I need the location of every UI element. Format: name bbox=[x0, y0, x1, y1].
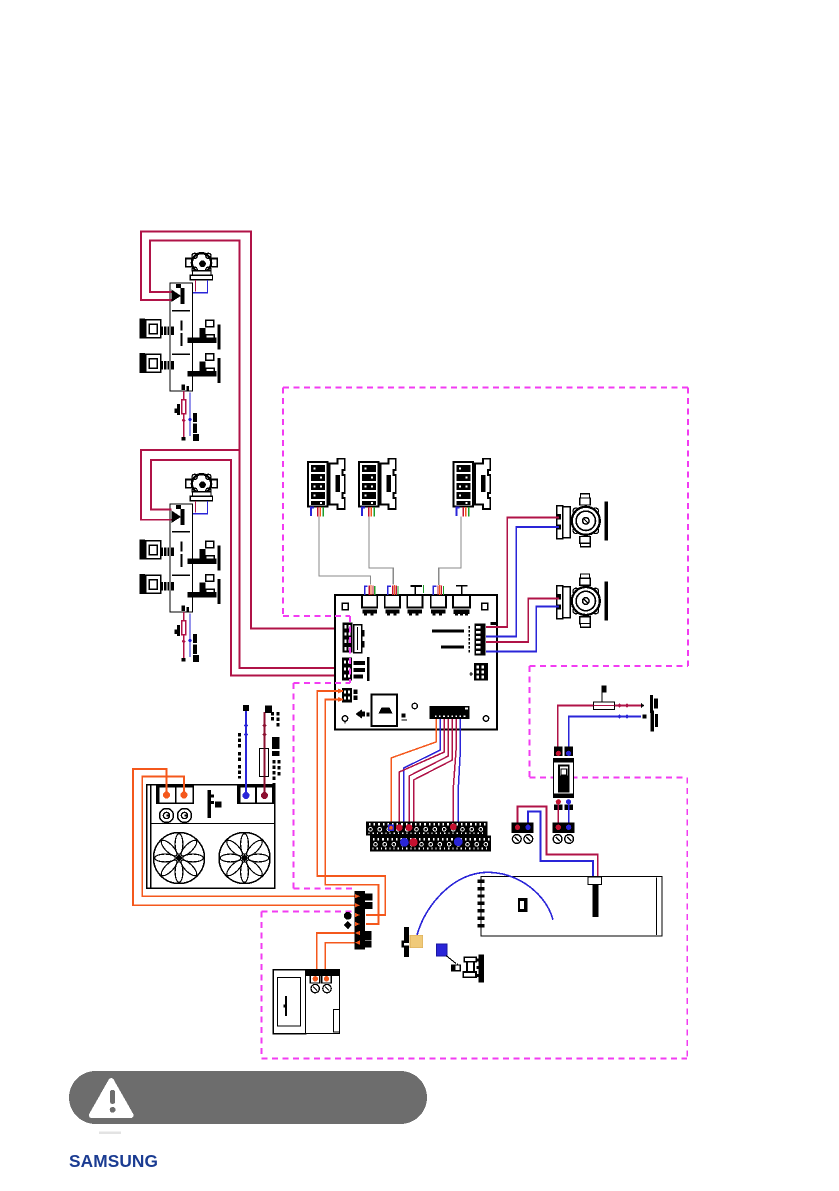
label wiring spec (vertical text marks) bbox=[271, 712, 281, 786]
strip row2 markings bbox=[373, 838, 490, 849]
wire dashed bottom edge 2 bbox=[294, 888, 357, 890]
wire P2 neutral (blue) bbox=[486, 607, 559, 652]
jumper J1 bbox=[402, 714, 406, 718]
wire ODU power loop outer bbox=[133, 769, 357, 905]
terminal strip TS1 row2 bbox=[370, 836, 491, 852]
terminal lug blue row2 a bbox=[400, 838, 409, 847]
connector CN1 bbox=[362, 595, 377, 615]
pin header CN5 bbox=[456, 586, 468, 595]
pump P1 (water pump) bbox=[557, 494, 608, 547]
pcb edge mark bbox=[491, 622, 498, 625]
wire CN11 pin3 (red) bbox=[399, 719, 444, 825]
PCB control board U1 bbox=[335, 595, 497, 730]
wire breaker out neutral bbox=[568, 804, 570, 825]
wire filter to controller A bbox=[317, 933, 358, 974]
supply terminal N bbox=[643, 714, 647, 718]
mounting hole bottom-left bbox=[342, 716, 347, 721]
wire PCB to filter orange B bbox=[325, 700, 378, 925]
terminal block TB1 bbox=[512, 823, 534, 844]
wire dashed top edge bbox=[283, 387, 688, 389]
immersion heater bbox=[588, 877, 602, 885]
indoor hydro box boundary (magenta dashed) bbox=[262, 388, 689, 1059]
wire P1 live (red) bbox=[486, 518, 559, 628]
terminal lug red 2 bbox=[406, 824, 413, 831]
terminal block CN7 bbox=[342, 657, 369, 681]
connector CN3 bbox=[407, 595, 422, 615]
terminal lug red 1 bbox=[396, 824, 403, 831]
label 230VAC (vertical text marks) bbox=[238, 733, 241, 779]
ODU internal symbol bbox=[208, 790, 211, 818]
wire ODU power loop inner bbox=[142, 777, 357, 897]
relay K2 (zone actuator) bbox=[359, 459, 396, 517]
wire thermostat loop kit1 inner bbox=[150, 240, 343, 668]
terminal lug blue row2 b bbox=[454, 837, 463, 846]
wire dashed notch h1 bbox=[283, 615, 350, 617]
wire dashed left edge low bbox=[261, 912, 263, 1059]
wire dashed left edge 2 bbox=[293, 683, 295, 889]
terminal block TB2 bbox=[553, 823, 575, 844]
fine print bbox=[99, 1132, 121, 1135]
mounting hole top-right bbox=[482, 603, 488, 610]
wire P1 neutral (blue) bbox=[486, 527, 559, 637]
zone kit 1 (mixing kit with pump) bbox=[140, 253, 221, 441]
wire K1 to PCB CN1 (grey) bbox=[319, 517, 371, 585]
trace bar 1 bbox=[432, 629, 464, 632]
wire dashed step v bbox=[529, 666, 531, 778]
wire dashed notch overlay (over PCB) bbox=[335, 616, 350, 683]
wire ODU comms blue bbox=[245, 711, 247, 796]
buzzer icon bbox=[356, 709, 363, 718]
wire breaker out live bbox=[557, 804, 559, 825]
wire K2 to PCB CN2 (grey) bbox=[369, 517, 393, 585]
ODU terminal block left (power) bbox=[156, 786, 194, 805]
warning triangle icon bbox=[92, 1081, 131, 1116]
mounting hole top-left bbox=[342, 603, 348, 610]
wire PCB to filter orange A bbox=[317, 691, 385, 915]
sensor S3 (blue) bbox=[437, 944, 448, 956]
terminal lug red row2 bbox=[409, 838, 417, 846]
pin header CN3 bbox=[410, 586, 422, 595]
connector CN11 (to terminal strip) bbox=[430, 706, 470, 719]
wire dashed right edge bbox=[687, 388, 689, 667]
connector CN10 bbox=[470, 663, 489, 681]
SAMSUNG logo bbox=[69, 1151, 158, 1172]
ODU terminal block right (comms) bbox=[237, 786, 276, 805]
wire thermostat loop kit1 outer bbox=[141, 231, 343, 675]
relay module K4 bbox=[372, 695, 398, 727]
wire CN11 pin6 (red) bbox=[453, 719, 456, 824]
relay K3 (zone actuator) bbox=[454, 459, 491, 517]
filter terminals (orange) bbox=[355, 894, 360, 945]
wire CN11 pin5 (red) bbox=[414, 719, 453, 839]
wire stubs CN1 bbox=[365, 585, 375, 595]
wire dashed notch v1 bbox=[349, 616, 351, 683]
wire tank sensor (blue arc) bbox=[417, 872, 554, 937]
wire dashed notch h2 bbox=[294, 682, 351, 684]
wire K3 to PCB CN4 (grey) bbox=[439, 517, 461, 585]
fan M2 bbox=[219, 833, 270, 884]
wire CN11 pin4 (red) bbox=[409, 719, 448, 825]
wire P2 live (red) bbox=[486, 599, 559, 643]
connector CN2 bbox=[385, 595, 400, 615]
fan M1 bbox=[154, 833, 205, 884]
wire CN11 pin1 (orange) bbox=[391, 719, 436, 825]
wire dashed left edge bbox=[282, 388, 284, 617]
relay K1 (zone actuator) bbox=[308, 459, 345, 517]
connector CN9 (pump outputs) bbox=[469, 624, 486, 656]
hot water tank bbox=[478, 877, 662, 937]
wire breaker feed neutral (blue) bbox=[569, 717, 641, 756]
terminal block CN6 bbox=[343, 623, 365, 653]
ground symbol 1 bbox=[160, 809, 174, 823]
trace bar 2 bbox=[441, 645, 464, 648]
mounting hole bottom-right bbox=[483, 716, 488, 721]
wire stubs CN2 bbox=[388, 585, 398, 595]
terminal block CN8 bbox=[342, 688, 358, 703]
wire filter to controller B bbox=[325, 943, 358, 974]
pump P2 (water pump) bbox=[557, 574, 608, 627]
warning banner bbox=[69, 1071, 427, 1124]
wire thermostat loop kit2 bbox=[151, 460, 343, 676]
noise filter terminal stack CN12 bbox=[344, 891, 373, 950]
ground symbol 2 bbox=[178, 809, 192, 823]
wire heater live (red) bbox=[518, 807, 598, 878]
wire heater neutral (blue) bbox=[528, 812, 593, 878]
strip row1 markings bbox=[369, 823, 486, 834]
test pin bbox=[601, 688, 603, 702]
wire stubs CN4 bbox=[433, 585, 443, 595]
outdoor unit ODU bbox=[147, 785, 275, 889]
circuit breaker Q1 bbox=[553, 747, 574, 810]
terminal lug red 3 bbox=[450, 823, 457, 830]
wire dashed bottom edge 1 bbox=[530, 665, 689, 667]
connector CN5 bbox=[453, 595, 470, 616]
terminal lug blue/orange bbox=[388, 825, 394, 831]
wire CN11 pin7 (blue) bbox=[458, 719, 460, 838]
wire dashed right edge low bbox=[686, 778, 688, 1059]
sensor S4 assembly bbox=[451, 954, 484, 982]
wire thermostat branch to kit2 bbox=[141, 450, 240, 520]
thermostat TH1 bbox=[404, 927, 409, 957]
wired controller RC1 bbox=[273, 970, 340, 1034]
connector CN4 bbox=[431, 595, 446, 615]
wire dashed top edge low bbox=[262, 911, 357, 913]
fuse F2 bbox=[260, 749, 269, 777]
supply terminal L bbox=[641, 703, 645, 708]
wire dashed step h bbox=[530, 777, 688, 779]
wire CN11 pin2 (blue) bbox=[404, 719, 441, 839]
wire ODU comms red bbox=[264, 712, 266, 796]
zone kit 2 (mixing kit with pump) bbox=[140, 474, 221, 662]
wire breaker feed live (red) bbox=[558, 706, 643, 752]
capacitor C1 bbox=[412, 703, 417, 708]
wire dashed bottom edge low bbox=[262, 1058, 688, 1060]
terminal strip TS1 row1 bbox=[366, 822, 488, 836]
fuse F1 bbox=[594, 702, 615, 710]
